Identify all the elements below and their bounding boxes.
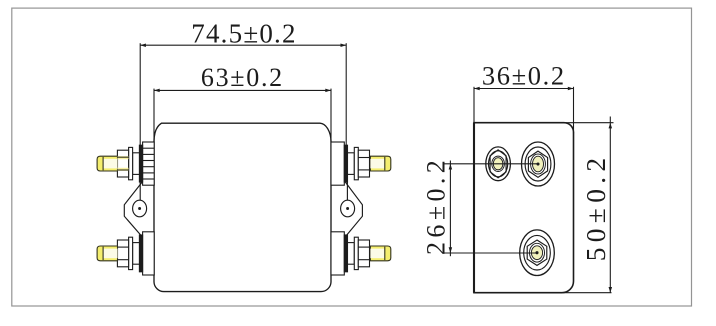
svg-text:74.5±0.2: 74.5±0.2 xyxy=(191,18,296,48)
svg-text:63±0.2: 63±0.2 xyxy=(201,63,284,92)
svg-text:36±0.2: 36±0.2 xyxy=(482,60,566,90)
svg-text:26±0.2: 26±0.2 xyxy=(422,156,451,255)
svg-text:50±0.2: 50±0.2 xyxy=(580,153,611,262)
